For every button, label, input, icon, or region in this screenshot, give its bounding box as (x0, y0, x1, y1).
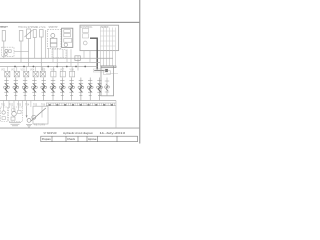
svg-text:V04: V04 (30, 68, 35, 71)
svg-text:V08: V08 (70, 68, 75, 71)
pump P4 (27, 119, 31, 123)
svg-text:V07: V07 (60, 68, 65, 71)
svg-text:Check: Check (67, 137, 76, 141)
svg-text:N.2 S/G: N.2 S/G (37, 27, 46, 29)
filter dashed box FB1 (52, 50, 66, 58)
pump P5 (2, 111, 5, 114)
valve V16 (2, 117, 5, 120)
valve DV4 (33, 67, 38, 77)
svg-text:T01: T01 (1, 103, 6, 106)
manifold hatched bar (46, 103, 116, 106)
svg-text:F.P.No1: F.P.No1 (1, 27, 7, 29)
bus line B (0, 61, 100, 63)
frame bottom border (0, 127, 140, 130)
pump P2 (4, 53, 7, 56)
valve V14 (11, 117, 15, 120)
svg-text:SY WD/RYAR: SY WD/RYAR (44, 131, 57, 135)
mid text labels (1, 68, 74, 71)
solenoid unit SU12 (104, 78, 109, 96)
bus line A (0, 57, 113, 59)
title block (41, 131, 138, 142)
svg-text:ST-BY PP: ST-BY PP (49, 27, 58, 29)
wire: right end drop (115, 101, 117, 128)
valve V9 (64, 30, 71, 33)
valve V10b (64, 39, 72, 43)
valve V3 with arrow (27, 29, 31, 39)
arrowhead (26, 115, 28, 117)
top small text labels (1, 27, 109, 29)
directional valve row (5, 67, 75, 77)
svg-text:T03: T03 (17, 103, 22, 106)
svg-text:V01: V01 (1, 68, 6, 71)
svg-text:PLC BOX: PLC BOX (101, 27, 109, 29)
valve V1 (2, 31, 5, 42)
pump group dashed box PG1 (2, 47, 14, 57)
valve DV1 (5, 67, 10, 77)
valve V5 (40, 30, 44, 38)
svg-text:V02: V02 (11, 68, 16, 71)
junction dots (14, 66, 86, 68)
pump P1 (5, 49, 8, 52)
svg-text:V05: V05 (41, 68, 46, 71)
bus line C (0, 66, 97, 68)
solenoid valve bank (4, 78, 103, 101)
wire: thick feed line (90, 38, 97, 69)
valve DV7 (60, 67, 65, 77)
svg-text:T02: T02 (9, 103, 14, 106)
valve V8 (50, 43, 57, 47)
bottom text labels (1, 103, 46, 126)
gauge G2 (83, 41, 87, 45)
svg-text:CONTROL: CONTROL (81, 27, 94, 29)
valve V6 (51, 34, 55, 38)
wire drops from manifold (49, 48, 90, 70)
wire: cooler inlet (41, 106, 43, 117)
tank T2 (9, 123, 21, 126)
valve V11 (83, 28, 89, 32)
valve DV5 (40, 67, 45, 77)
pump P3 (12, 112, 17, 117)
cooler box CL1 (33, 106, 48, 124)
svg-text:Prepare: Prepare (42, 137, 51, 141)
svg-text:11-July-2013: 11-July-2013 (100, 131, 126, 135)
control block box CB1 (62, 28, 73, 47)
tank T1 (26, 124, 32, 127)
gauge G4 (32, 115, 36, 119)
valve V17 (12, 109, 15, 112)
valve V15 (18, 111, 22, 114)
manifold dashed box MB1 (47, 29, 61, 48)
main control box CB2 (80, 25, 119, 50)
svg-text:T06: T06 (41, 103, 46, 106)
svg-text:Aprove: Aprove (88, 137, 97, 141)
valve DV2 (14, 67, 19, 77)
wire: ladder drops (100, 50, 115, 66)
svg-text:RETURN: RETURN (34, 123, 45, 126)
signature table (41, 136, 138, 142)
drain diagonal (31, 108, 46, 121)
motor M1 (9, 50, 12, 53)
manifold baseline (0, 100, 116, 102)
valve V7 (50, 38, 57, 43)
svg-text:T05: T05 (33, 103, 38, 106)
wire: top label leaders (0, 26, 8, 28)
wire: tank drops (4, 101, 31, 112)
valve DV6 (51, 67, 56, 77)
bottom left dashed tank box TB2 (9, 107, 23, 122)
right assembly box RA1 (101, 66, 114, 96)
wire: riser with arrow (26, 107, 28, 118)
valve V10 (64, 33, 71, 36)
valve V12 (83, 34, 89, 38)
svg-text:HYD OIL SYSTEM: HYD OIL SYSTEM (18, 27, 37, 29)
bottom left dashed tank box TB1 (1, 107, 8, 122)
right assembly top dark edge (101, 66, 116, 68)
valve DV3 (24, 67, 29, 77)
svg-text:Hydraulic circuit diagram: Hydraulic circuit diagram (63, 131, 94, 135)
valve V2 (19, 31, 23, 42)
svg-text:V03: V03 (21, 68, 26, 71)
ladder rails (100, 28, 115, 51)
wire: pump outlet (14, 51, 29, 53)
frame right border (139, 0, 140, 144)
accumulator box BB (75, 56, 80, 61)
valve V13 (103, 71, 110, 75)
svg-text:V06: V06 (51, 68, 56, 71)
label box L1 (93, 69, 118, 74)
gauge G1 (64, 43, 67, 46)
valve DV8 (70, 67, 75, 77)
valve V4 (33, 30, 36, 38)
frame top border (0, 22, 140, 23)
svg-text:T04: T04 (25, 103, 30, 106)
